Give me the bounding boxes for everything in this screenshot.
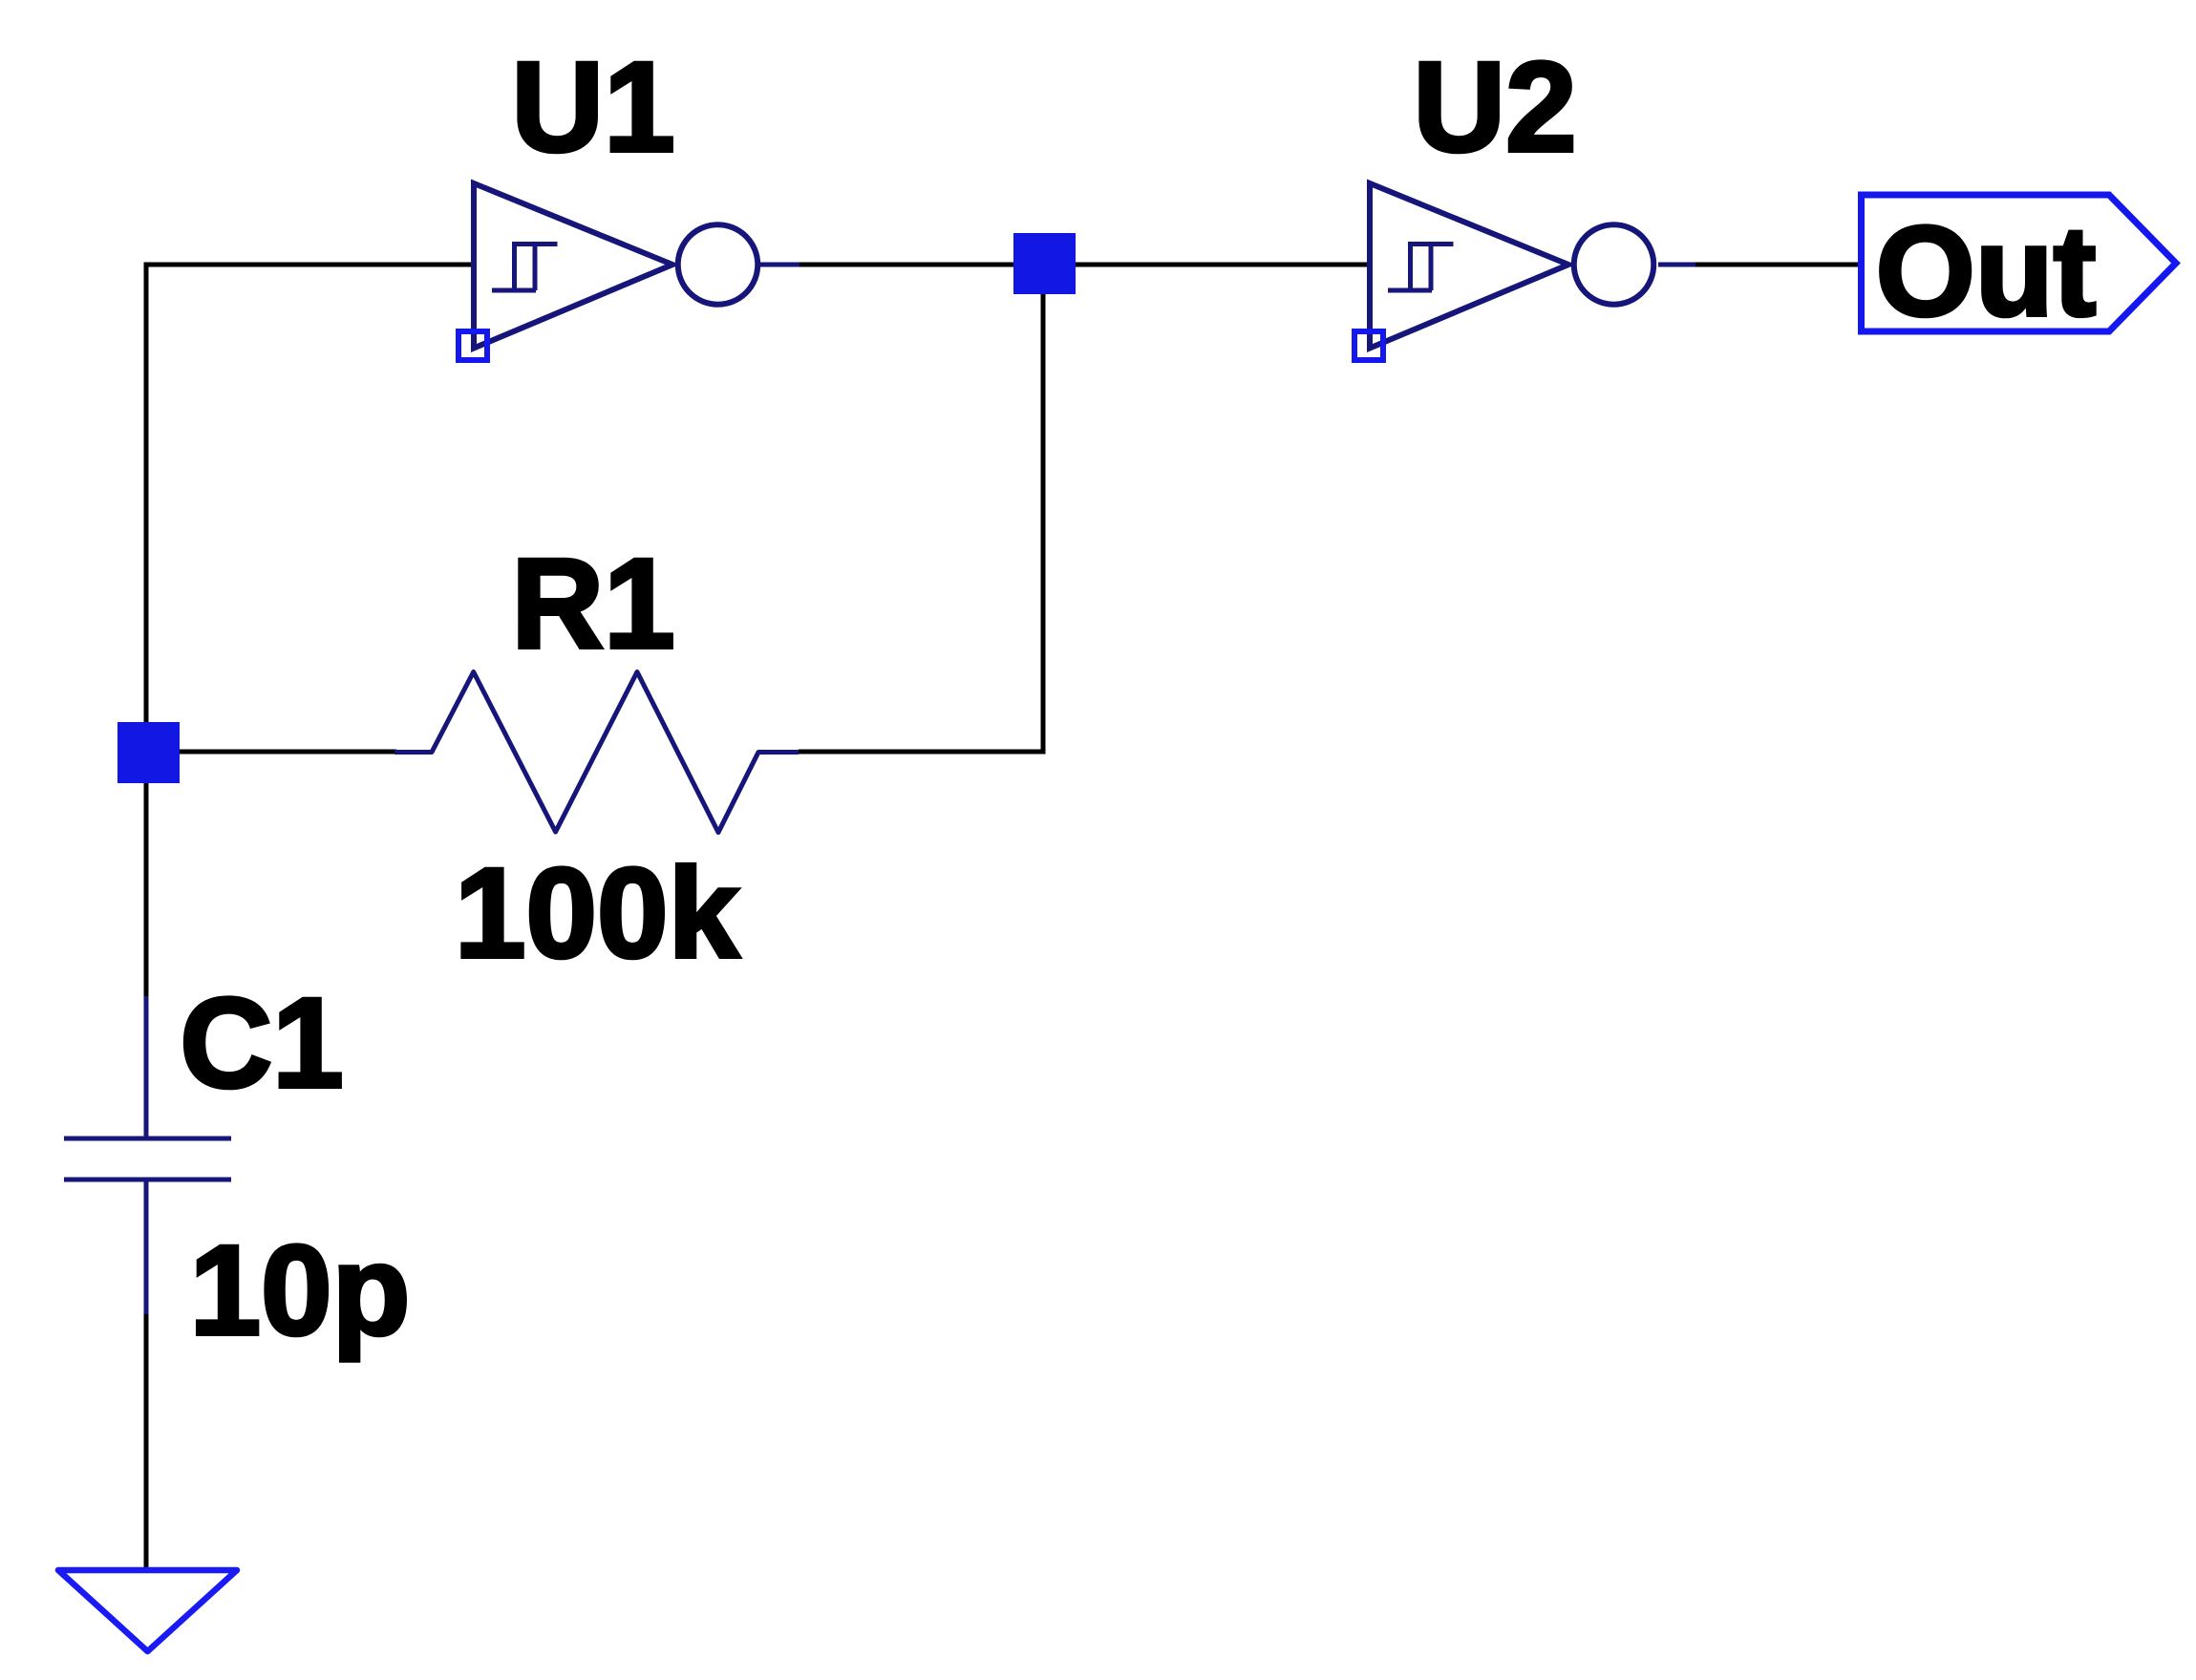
wire U1 output to node A <box>800 263 1044 267</box>
junction node B <box>117 722 180 783</box>
junction node A <box>1013 233 1076 294</box>
capacitor C1 bottom pin <box>144 1180 149 1316</box>
wire from R1 right side up to node A <box>799 294 1043 752</box>
wire from C1/R1 node up and right to U1 input <box>146 265 476 998</box>
svg-text:U1: U1 <box>511 36 674 179</box>
U1 output bubble <box>678 224 758 305</box>
svg-text:100k: 100k <box>455 842 740 985</box>
svg-text:10p: 10p <box>190 1220 411 1362</box>
svg-text:R1: R1 <box>511 533 674 675</box>
wire node B to R1 <box>148 750 396 755</box>
U2 output bubble <box>1574 224 1654 305</box>
capacitor C1 top plate <box>64 1137 231 1141</box>
svg-text:C1: C1 <box>180 972 343 1115</box>
U2 unused pin square <box>1354 331 1383 360</box>
resistor R1 <box>394 672 799 833</box>
output port flag Out <box>1862 195 2177 331</box>
U1 unused pin square <box>458 331 487 360</box>
U1 output pin stub <box>760 263 800 267</box>
capacitor C1 top pin <box>144 996 149 1138</box>
wire node A to U2 input <box>1076 263 1372 267</box>
U2 output pin stub <box>1658 263 1695 267</box>
capacitor C1 bottom plate <box>64 1178 231 1182</box>
inverter U1 triangle body <box>474 183 672 349</box>
inverter U2 triangle body <box>1370 183 1568 349</box>
U1 hysteresis mark <box>492 242 558 290</box>
svg-text:U2: U2 <box>1413 36 1576 179</box>
wire U2 output to Out port <box>1695 263 1861 267</box>
U2 hysteresis mark <box>1388 242 1454 290</box>
svg-text:Out: Out <box>1876 201 2097 343</box>
wire C1 to ground <box>144 1314 149 1568</box>
ground <box>58 1570 237 1651</box>
